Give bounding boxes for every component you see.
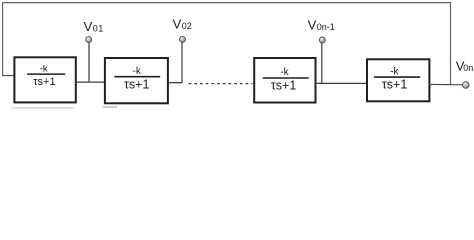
wire input to block 1: [2, 75, 14, 77]
svg-text:0n: 0n: [463, 63, 473, 73]
node V02 label: [173, 16, 192, 31]
svg-text:V: V: [308, 18, 317, 33]
block U4 (-k/(τs+1)): [367, 59, 429, 101]
node V0n output terminal: [463, 82, 470, 89]
svg-text:-k: -k: [40, 63, 48, 74]
svg-text:0n-1: 0n-1: [317, 22, 335, 32]
svg-text:V: V: [84, 19, 93, 34]
svg-text:τs+1: τs+1: [124, 78, 149, 92]
wire block1 to block2: [77, 81, 104, 83]
node V01 terminal: [86, 37, 92, 43]
wire block4 to output node: [429, 83, 463, 85]
block U2 (-k/(τs+1)): [105, 58, 168, 103]
scan artifact smudge under block2: [103, 106, 117, 107]
wire left rail: [2, 2, 4, 76]
wire dashed continuation: [189, 83, 253, 85]
node V01 label: [84, 19, 104, 34]
block U3 (-k/(τs+1)): [254, 58, 315, 103]
svg-text:V: V: [173, 16, 182, 31]
wire block3 to block4: [316, 82, 367, 84]
svg-text:τs+1: τs+1: [271, 79, 296, 93]
scan artifact smudge under block1: [12, 107, 75, 108]
wire block2 to V02 stem: [169, 82, 182, 84]
node V0n-1 label: [308, 18, 335, 33]
svg-text:02: 02: [182, 21, 192, 31]
svg-text:-k: -k: [280, 67, 289, 78]
node V0n-1 terminal: [319, 37, 325, 43]
node V02 stem: [181, 43, 183, 83]
svg-text:-k: -k: [390, 66, 399, 77]
node V0n label: [456, 59, 473, 74]
svg-text:τs+1: τs+1: [382, 77, 407, 91]
node V02 terminal: [180, 36, 186, 42]
wire right rail: [450, 2, 452, 85]
svg-text:-k: -k: [133, 66, 142, 77]
wire top feedback rail: [3, 2, 451, 4]
svg-text:τs+1: τs+1: [33, 76, 55, 88]
block U1 (-k/(τs+1)): [14, 57, 75, 102]
node V0n-1 stem: [321, 43, 323, 83]
svg-text:01: 01: [93, 24, 104, 34]
node V01 stem: [88, 43, 90, 83]
